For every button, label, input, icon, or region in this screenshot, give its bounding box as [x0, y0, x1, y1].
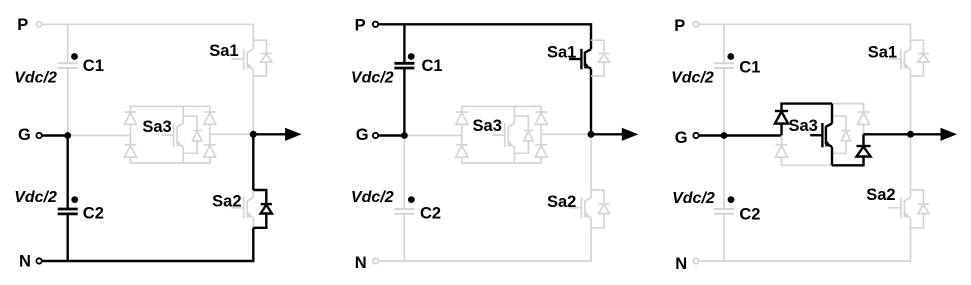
svg-text:N: N — [355, 254, 367, 272]
svg-text:Vdc/2: Vdc/2 — [14, 189, 57, 206]
diode Sa3 bottom-right (panel 2) — [535, 145, 547, 157]
wire N rail (panel 1) — [42, 228, 253, 261]
svg-text:C2: C2 — [83, 205, 104, 223]
wire G to junction (panel 1) — [42, 134, 67, 136]
svg-text:Vdc/2: Vdc/2 — [14, 69, 57, 86]
wire Sa3 to output node (panel 2) — [541, 133, 591, 135]
node G junction dot (panel 3) — [721, 132, 728, 139]
svg-text:P: P — [674, 17, 685, 35]
wire junction to Sa3 bridge (panel 1) — [68, 135, 131, 137]
label Sa2 (panel 3) — [866, 186, 895, 204]
capacitor C1 (panel 1) — [58, 63, 78, 68]
terminal P (panel 3) — [674, 17, 698, 35]
label C2 (panel 2) — [420, 205, 441, 223]
node C2 polarity dot (panel 2) — [408, 196, 415, 203]
svg-text:Sa1: Sa1 — [868, 43, 897, 61]
label Sa1 (panel 1) — [209, 42, 238, 60]
label Sa2 (panel 2) — [547, 193, 576, 211]
wire output arrow (panel 2) — [591, 128, 638, 141]
node C1 polarity dot (panel 3) — [727, 53, 734, 60]
IGBT Sa1 (panel 3) — [889, 40, 911, 69]
wire Sa3 to output node (panel 1) — [210, 133, 254, 135]
wire output arrow (panel 1) — [253, 128, 301, 141]
IGBT Sa1 (panel 2) — [569, 40, 591, 69]
svg-text:C1: C1 — [422, 57, 443, 75]
wire N rail (panel 3) — [699, 228, 910, 261]
diode Sa1 antiparallel (panel 3) — [911, 40, 930, 76]
node C1 polarity dot (panel 2) — [408, 53, 415, 60]
svg-text:G: G — [18, 126, 31, 144]
diode Sa3 top-left (panel 1) — [124, 112, 136, 124]
wire Sa3 active path bottom (panel 3) — [832, 134, 864, 165]
wire P rail (panel 1) — [42, 24, 253, 40]
label Vdc/2 lower (panel 1) — [14, 189, 57, 206]
wire P rail (panel 3) — [699, 24, 910, 40]
svg-text:Sa1: Sa1 — [209, 42, 238, 60]
terminal N (panel 3) — [675, 255, 699, 273]
diode Sa2 antiparallel (panel 2) — [591, 190, 610, 228]
svg-text:N: N — [19, 252, 31, 270]
diode Sa1 antiparallel (panel 1) — [253, 40, 272, 76]
diode Sa1 antiparallel (panel 2) — [591, 40, 610, 76]
label Sa1 (panel 2) — [547, 43, 576, 61]
label Vdc/2 upper (panel 3) — [671, 69, 714, 86]
svg-text:G: G — [675, 129, 688, 147]
switch Sa3 bridge outline (panel 2) — [462, 106, 541, 163]
terminal G (panel 1) — [18, 126, 42, 144]
svg-text:Sa3: Sa3 — [142, 118, 171, 136]
wire output arrow (panel 3) — [911, 128, 958, 141]
label Vdc/2 upper (panel 1) — [14, 69, 57, 86]
diode Sa3 inner antiparallel (panel 3) — [832, 116, 851, 153]
svg-text:Vdc/2: Vdc/2 — [351, 69, 394, 86]
label C1 (panel 2) — [422, 57, 443, 75]
label C1 (panel 3) — [739, 58, 760, 76]
terminal P (panel 1) — [17, 16, 42, 34]
wire junction to Sa3 bridge (panel 3) — [724, 134, 782, 136]
wire G to junction (panel 3) — [699, 134, 724, 136]
IGBT Sa2 (panel 1) — [231, 190, 253, 228]
IGBT Sa2 (panel 2) — [569, 190, 591, 228]
wire output node to Sa2 (panel 1) — [252, 134, 254, 190]
diode Sa3 top-left (panel 2) — [456, 112, 468, 124]
label Sa3 (panel 3) — [788, 117, 817, 135]
terminal P (panel 2) — [355, 17, 379, 35]
svg-text:Sa1: Sa1 — [547, 43, 576, 61]
IGBT Sa2 (panel 3) — [889, 190, 911, 228]
diode Sa3 bottom-right black (panel 3) — [857, 146, 871, 157]
capacitor C2 (panel 3) — [714, 209, 734, 214]
node G junction dot (panel 2) — [401, 132, 408, 139]
IGBT Sa3 middle black (panel 3) — [810, 104, 832, 166]
diode Sa3 bottom-left (panel 1) — [124, 145, 136, 157]
svg-text:C1: C1 — [83, 57, 104, 75]
wire upper capacitor branch (panel 2) — [403, 24, 405, 135]
label Vdc/2 lower (panel 3) — [672, 190, 715, 207]
node C2 polarity dot (panel 3) — [728, 196, 735, 203]
svg-text:Sa2: Sa2 — [547, 193, 576, 211]
wire P rail (panel 2) — [379, 24, 591, 40]
label C1 (panel 1) — [83, 57, 104, 75]
diode Sa2 antiparallel (panel 3) — [911, 190, 930, 228]
node output junction dot (panel 3) — [907, 131, 914, 138]
switch Sa3 bridge outline (panel 1) — [130, 106, 209, 163]
wire output node to Sa2 (panel 3) — [910, 134, 912, 190]
svg-text:Sa3: Sa3 — [788, 117, 817, 135]
svg-text:P: P — [355, 17, 366, 35]
svg-text:Sa2: Sa2 — [212, 193, 241, 211]
wire G to junction (panel 2) — [379, 134, 405, 136]
capacitor C1 (panel 2) — [394, 63, 414, 68]
capacitor C2 (panel 2) — [394, 209, 414, 214]
node output junction dot (panel 1) — [250, 131, 257, 138]
wire upper capacitor branch (panel 1) — [67, 24, 69, 135]
label Sa3 (panel 1) — [142, 118, 171, 136]
label Sa1 (panel 3) — [868, 43, 897, 61]
label C2 (panel 1) — [83, 205, 104, 223]
switch Sa3 bridge gray remnants (panel 3) — [782, 104, 864, 166]
wire output node to Sa2 (panel 2) — [590, 134, 592, 190]
wire junction to Sa3 bridge (panel 2) — [404, 135, 461, 137]
terminal G (panel 3) — [675, 129, 699, 147]
diode Sa3 top-right (panel 2) — [535, 112, 547, 124]
wire lower capacitor branch (panel 3) — [723, 136, 725, 262]
node C1 polarity dot (panel 1) — [71, 53, 78, 60]
svg-text:G: G — [356, 126, 369, 144]
wire Sa1 emitter to output node (panel 1) — [252, 69, 254, 135]
IGBT Sa3 middle (panel 2) — [493, 106, 515, 163]
diode Sa3 inner antiparallel (panel 1) — [183, 116, 202, 153]
wire upper capacitor branch (panel 3) — [723, 24, 725, 135]
svg-text:C2: C2 — [420, 205, 441, 223]
terminal N (panel 1) — [19, 252, 42, 270]
label Sa2 (panel 1) — [212, 193, 241, 211]
node output junction dot (panel 2) — [588, 131, 595, 138]
terminal G (panel 2) — [356, 126, 378, 144]
IGBT Sa1 (panel 1) — [231, 40, 253, 69]
diode Sa3 bottom-left (panel 2) — [456, 145, 468, 157]
svg-text:P: P — [17, 16, 28, 34]
wire lower capacitor branch (panel 1) — [66, 136, 68, 262]
label Vdc/2 upper (panel 2) — [351, 69, 394, 86]
wire Sa3 to output node (panel 3) — [864, 133, 911, 135]
wire Sa1 emitter to output node (panel 2) — [590, 69, 592, 135]
svg-text:Sa3: Sa3 — [473, 117, 502, 135]
IGBT Sa3 middle (panel 1) — [161, 106, 183, 163]
svg-text:Vdc/2: Vdc/2 — [672, 190, 715, 207]
capacitor C1 (panel 3) — [714, 63, 734, 68]
svg-text:Vdc/2: Vdc/2 — [351, 189, 394, 206]
diode Sa3 top-left black (panel 3) — [775, 111, 788, 124]
diode Sa3 bottom-left (panel 3) — [776, 145, 788, 157]
wire N rail (panel 2) — [379, 228, 591, 261]
diode Sa2 antiparallel (panel 1) — [253, 190, 272, 228]
node G junction dot (panel 1) — [64, 132, 71, 139]
svg-text:Sa2: Sa2 — [866, 186, 895, 204]
wire lower capacitor branch (panel 2) — [403, 136, 405, 262]
diode Sa3 top-right (panel 3) — [858, 112, 870, 124]
capacitor C2 (panel 1) — [58, 209, 78, 214]
label C2 (panel 3) — [739, 206, 760, 224]
svg-text:N: N — [675, 255, 687, 273]
terminal N (panel 2) — [355, 254, 378, 272]
label Vdc/2 lower (panel 2) — [351, 189, 394, 206]
diode Sa3 inner antiparallel (panel 2) — [514, 116, 533, 153]
svg-text:C2: C2 — [739, 206, 760, 224]
svg-text:C1: C1 — [739, 58, 760, 76]
diode Sa3 bottom-right (panel 1) — [204, 145, 216, 157]
wire Sa3 active path left (panel 3) — [782, 104, 833, 136]
svg-text:Vdc/2: Vdc/2 — [671, 69, 714, 86]
wire Sa1 emitter to output node (panel 3) — [910, 69, 912, 135]
node C2 polarity dot (panel 1) — [71, 196, 78, 203]
label Sa3 (panel 2) — [473, 117, 502, 135]
diode Sa3 top-right (panel 1) — [204, 112, 216, 124]
